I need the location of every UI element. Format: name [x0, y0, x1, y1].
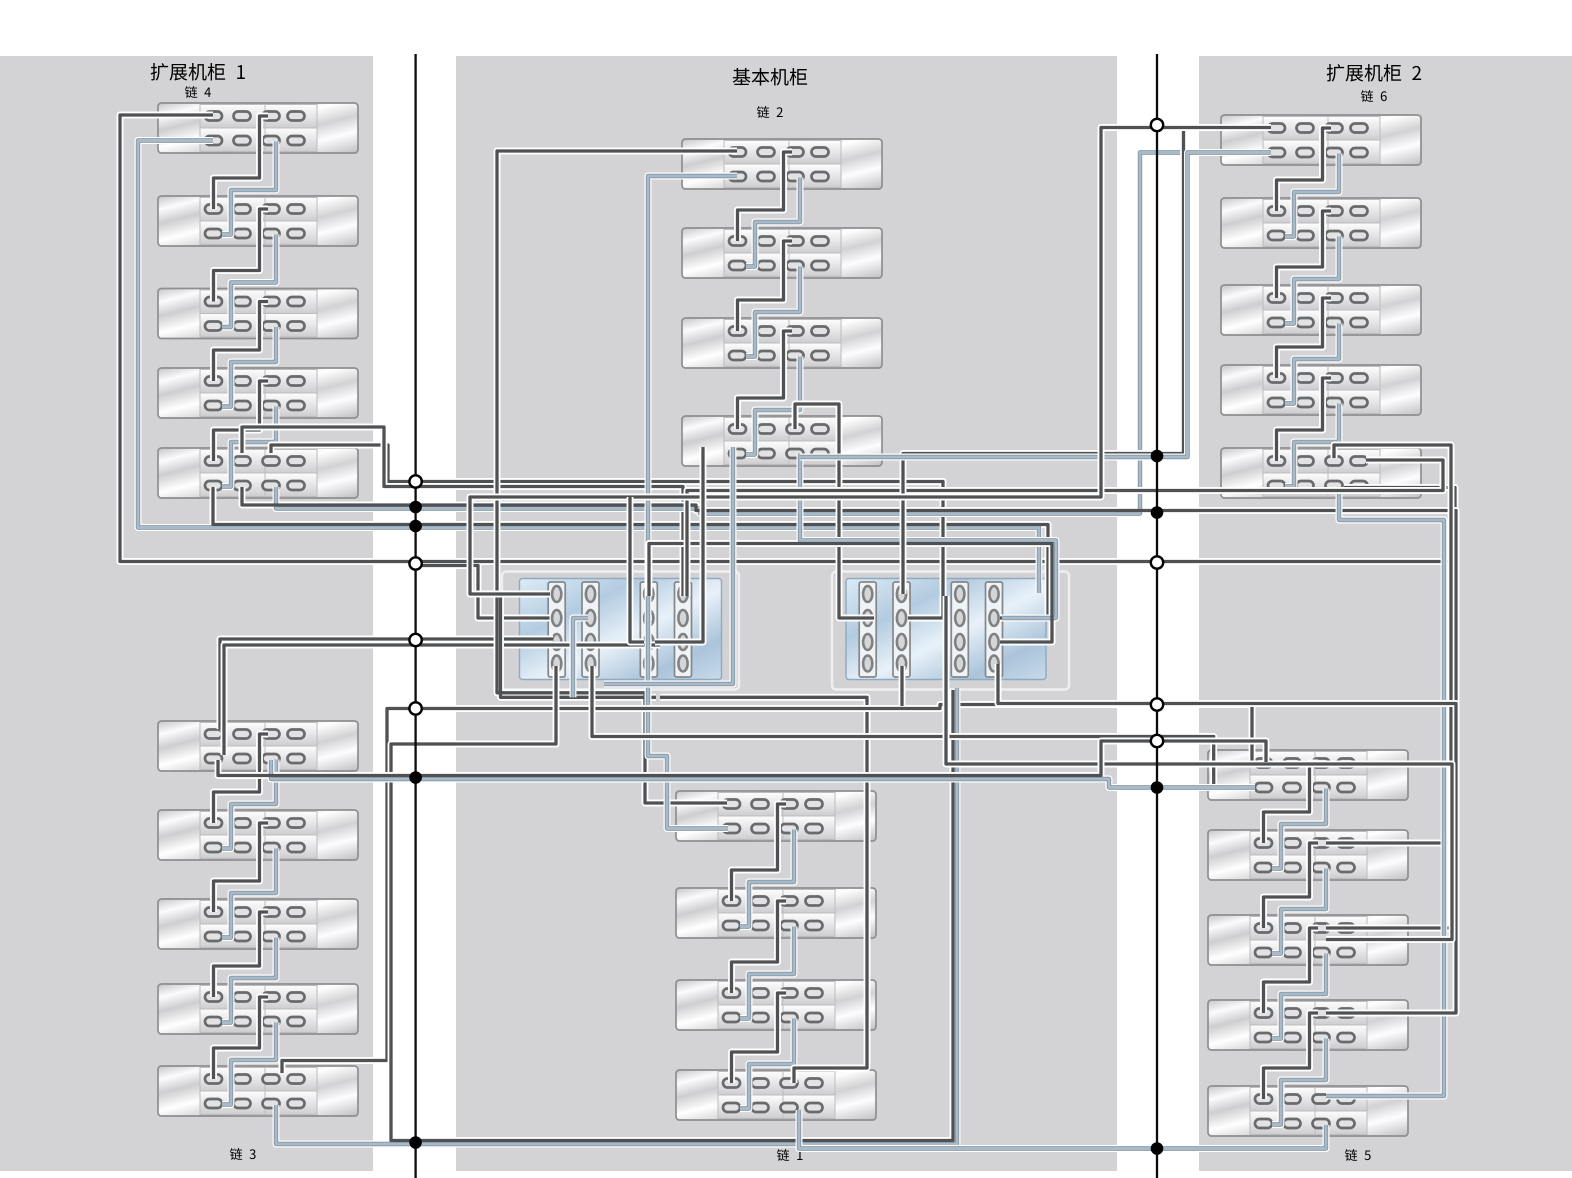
- wire W13 MT1-bot-p1 down to MB1-bot-p1 (blue): [648, 176, 737, 829]
- wire W14b MT4-bot-p3 to U2 slot4 (blue): [800, 454, 1056, 619]
- wire SAS LT2-bot-p3 to LT3-bot-p1 (blue): [222, 235, 276, 328]
- disk shelf MB2 (基本机柜 bottom (链1)): [676, 888, 876, 938]
- wire SAS LB4-top-p3 to LB5-top-p1 (dark): [214, 997, 269, 1079]
- wire W14a MT4-top-p3 down to U2 (dark): [795, 404, 874, 618]
- wire W9 RT5-bot-p3 down to RB5-top-p3 (blue): [1326, 487, 1444, 1096]
- wire W10b to LB1-bot-p1 (dark): [224, 645, 660, 755]
- wire SAS MT2-top-p3 to MT3-top-p1 (dark): [738, 241, 793, 331]
- disk shelf MB4 (基本机柜 bottom (链1)): [676, 1070, 876, 1120]
- wire W25 U1-s2-p2 jog (blue): [573, 618, 588, 697]
- wire W8 RT5-top-p3 down to RB3 (dark): [1326, 445, 1451, 928]
- wire W4 LT5-top-p3 to U2 (dark): [271, 445, 943, 618]
- junction node (left line, y=507): [409, 501, 422, 514]
- wire W28 U1-s4-p1 up to RT5-top-p4 (dark): [687, 460, 1443, 596]
- label 链 3: [230, 1148, 256, 1160]
- controller U1 HBA slot 3: [640, 582, 657, 677]
- disk shelf LB2 (扩展机柜1 bottom (链3)): [158, 810, 358, 860]
- wire SAS LB3-top-p3 to LB4-top-p1 (dark): [214, 912, 269, 997]
- wire SAS LT3-top-p3 to LT4-top-p1 (dark): [214, 302, 269, 382]
- wire W38 trunk down right of U1 to s3-p3 (dark): [655, 447, 703, 642]
- wire SAS MT1-top-p3 to MT2-top-p1 (dark): [738, 152, 793, 241]
- wire W2 LT1-bot-p1 long run to U2 (blue): [138, 141, 1039, 594]
- wire W30 MT4 area to U2 (blue): [800, 153, 1267, 458]
- disk shelf MT3 (基本机柜 top (链2)): [682, 318, 882, 368]
- wire SAS RB2-bot-p3 to RB3-bot-p1 (blue): [1272, 869, 1326, 954]
- disk shelf LB5 (扩展机柜1 bottom (链3)): [158, 1066, 358, 1116]
- junction node (right line, y=456): [1151, 450, 1164, 463]
- wire W24 U1-s3-p1 to U2-s4-p3 (dark): [649, 544, 1052, 643]
- label 链 5: [1345, 1149, 1371, 1161]
- wire SAS LT1-bot-p3 to LT2-bot-p1 (blue): [222, 142, 276, 235]
- crossover node (left line, y=708.5): [409, 702, 421, 714]
- controller U1 HBA slot 1: [548, 582, 565, 677]
- junction node (left line, y=526): [409, 520, 422, 533]
- controller U2 motherboard: [846, 579, 1046, 680]
- wire W29 U2-s2-p1 up-right (dark): [903, 128, 1271, 595]
- rack boundary line left: [414, 54, 416, 1178]
- controller U2 chassis: [832, 572, 1069, 690]
- wire W15 MB4-top-p3 up to U1 bundle (dark): [660, 697, 867, 1083]
- junction node (right line, y=512.5): [1151, 506, 1164, 519]
- disk shelf MB1 (基本机柜 bottom (链1)): [676, 791, 876, 841]
- wire SAS RB1-top-p3 to RB2-top-p1 (dark): [1264, 763, 1319, 843]
- disk shelf RB4 (扩展机柜2 bottom (链5)): [1208, 1000, 1408, 1050]
- wire SAS LB4-bot-p3 to LB5-bot-p1 (blue): [222, 1023, 276, 1105]
- crossover node (left line, y=563.5): [409, 557, 421, 569]
- wire SAS RT4-bot-p3 to RT5-bot-p1 (blue): [1285, 404, 1339, 487]
- wire W7 LT5-bot-p3 to RT1-bot-p1 (blue): [276, 153, 1271, 514]
- wire SAS MT1-bot-p3 to MT2-bot-p1 (blue): [746, 178, 800, 267]
- wire W3 LT5-bot-p1 to U2 slot4 (dark): [213, 487, 1048, 618]
- wire W5 LT5-top-p2 to U1 slot4 (dark): [242, 427, 683, 596]
- controller U1 HBA slot 2: [582, 582, 599, 677]
- wire W18c U2-s2-p4 stub down (dark): [899, 666, 906, 706]
- disk shelf RT5 (扩展机柜2 top (链6)): [1221, 448, 1421, 498]
- wire SAS LT4-bot-p3 to LT5-bot-p1 (blue): [222, 407, 276, 487]
- crossover node (right line, y=704.5): [1151, 698, 1163, 710]
- disk shelf MT2 (基本机柜 top (链2)): [682, 228, 882, 278]
- crossover node (right line, y=562.5): [1151, 556, 1163, 568]
- wire WA LB1-bot trunk to RB1-top-p1 (dark) (core): [218, 741, 1266, 776]
- wire SAS RT2-top-p3 to RT3-top-p1 (dark): [1277, 211, 1332, 298]
- controller U1 chassis: [502, 572, 739, 690]
- controller U1 motherboard: [520, 579, 722, 680]
- wire W26 trunk down to U1-s3-p3 (dark): [630, 497, 644, 642]
- wire B3 RB5-bot-p3 bottom trunk to MB4 (blue): [799, 1110, 1326, 1149]
- wire SAS LB1-bot-p3 to LB2-bot-p1 (blue): [222, 760, 276, 849]
- disk shelf RT1 (扩展机柜2 top (链6)): [1221, 115, 1421, 165]
- disk shelf RT4 (扩展机柜2 top (链6)): [1221, 365, 1421, 415]
- junction node (left line, y=777.5): [409, 771, 422, 784]
- wire W22 U2-s4-p4 to RB4-top-p3 (dark): [998, 664, 1456, 1013]
- label 链 1: [777, 1149, 803, 1161]
- rack panel: 扩展机柜 2: [1199, 56, 1572, 1171]
- wire SAS LT2-top-p3 to LT3-top-p1 (dark): [214, 209, 269, 302]
- wire SAS LB3-bot-p3 to LB4-bot-p1 (blue): [222, 938, 276, 1023]
- wire WB LB1-bot-p3 trunk right (blue): [271, 760, 1255, 788]
- disk shelf MT1 (基本机柜 top (链2)): [682, 139, 882, 189]
- wire SAS LB1-top-p3 to LB2-top-p1 (dark): [214, 734, 269, 823]
- label 链 6: [1361, 90, 1387, 102]
- rack panel: 扩展机柜 1: [0, 56, 373, 1171]
- disk shelf MB3 (基本机柜 bottom (链1)): [676, 980, 876, 1030]
- controller U1 HBA slot 4: [675, 582, 692, 677]
- disk shelf LT1 (扩展机柜1 top (链4)): [158, 103, 358, 153]
- disk shelf LB3 (扩展机柜1 bottom (链3)): [158, 899, 358, 949]
- wire SAS LT3-bot-p3 to LT4-bot-p1 (blue): [222, 327, 276, 407]
- controller U2 HBA slot 3: [951, 582, 968, 677]
- wire W24 U1-s3-p1 to U2-s4-p3 (dark) (core): [649, 544, 1052, 643]
- disk shelf LB4 (扩展机柜1 bottom (链3)): [158, 984, 358, 1034]
- disk shelf RB5 (扩展机柜2 bottom (链5)): [1208, 1086, 1408, 1136]
- wire W31 RT1-top-p1 long run to U1-s1-p1 (dark): [470, 128, 1271, 595]
- wire SAS RB3-bot-p3 to RB4-bot-p1 (blue): [1272, 954, 1326, 1039]
- controller U2 HBA slot 2: [893, 582, 910, 677]
- title 扩展机柜 1: [151, 63, 245, 81]
- wire SAS RB1-bot-p3 to RB2-bot-p1 (blue): [1272, 789, 1326, 869]
- disk shelf LT5 (扩展机柜1 top (链4)): [158, 448, 358, 498]
- wire W6 LT5-bot-p2 to RB2 (dark): [242, 487, 1456, 843]
- wire SAS RT2-bot-p3 to RT3-bot-p1 (blue): [1285, 237, 1339, 324]
- wire SAS LB2-top-p3 to LB3-top-p1 (dark): [214, 823, 269, 912]
- wire W6 LT5-bot-p2 to RB2 (dark) (core): [242, 487, 1456, 843]
- wire W20 trunk to U1-s1-p2 (dark): [417, 566, 550, 619]
- wire W33 U2-s3 down to RB3-bot-p3 (dark): [946, 596, 1452, 940]
- rack panel: 基本机柜: [456, 56, 1117, 1171]
- wire W19 U1-s1-p4 down to bottom trunk (dark): [391, 666, 953, 1141]
- wire W3 LT5-bot-p1 to U2 slot4 (dark) (core): [213, 487, 1048, 618]
- disk shelf RT3 (扩展机柜2 top (链6)): [1221, 285, 1421, 335]
- wire W10a U1-s1-p3 to LB1-top-p1 (dark): [220, 639, 553, 729]
- wire W23 U1-s1-p1 down (dark): [501, 594, 657, 697]
- wire SAS RB2-top-p3 to RB3-top-p1 (dark): [1264, 843, 1319, 928]
- disk shelf LT4 (扩展机柜1 top (链4)): [158, 368, 358, 418]
- wire SAS LT4-top-p3 to LT5-top-p1 (dark): [214, 381, 269, 461]
- wire W18a RB1 area long run to LB5-top-p3 (dark): [282, 705, 1252, 1074]
- junction node (left line, y=1142.5): [409, 1136, 422, 1149]
- crossover node (left line, y=640): [409, 634, 421, 646]
- rack boundary line right: [1156, 54, 1158, 1178]
- wire SAS MT2-bot-p3 to MT3-bot-p1 (blue): [746, 267, 800, 357]
- wire SAS RB3-top-p3 to RB4-top-p1 (dark): [1264, 928, 1319, 1013]
- wire W1 LT1-top-p1 long run to RT5 (dark): [120, 115, 1455, 562]
- junction node (right line, y=1148.5): [1151, 1142, 1164, 1155]
- wire SAS LB2-bot-p3 to LB3-bot-p1 (blue): [222, 849, 276, 938]
- title 扩展机柜 2: [1327, 64, 1421, 82]
- wire W21 U1-s2-p4 to RB1-bot-p1 (dark): [592, 666, 1248, 788]
- label 链 2: [757, 106, 783, 118]
- wire W1 LT1-top-p1 long run to RT5 (dark) (core): [120, 115, 1455, 562]
- disk shelf LT3 (扩展机柜1 top (链4)): [158, 289, 358, 339]
- wire WA LB1-bot trunk to RB1-top-p1 (dark): [218, 741, 1266, 776]
- wire SAS MB1-bot-p3 to MB2-bot-p1 (blue): [740, 830, 794, 927]
- wire W12 MT1-top-p1 down to MB1-top-p1 (dark) (core): [497, 151, 737, 803]
- disk shelf RB1 (扩展机柜2 bottom (链5)): [1208, 750, 1408, 800]
- disk shelf RB2 (扩展机柜2 bottom (链5)): [1208, 830, 1408, 880]
- wire SAS MB1-top-p3 to MB2-top-p1 (dark): [732, 804, 787, 901]
- wire W19 U1-s1-p4 down to bottom trunk (dark) (core): [391, 666, 953, 1141]
- wire W18b LB5-bot-p3 bottom trunk to U2 (blue): [276, 688, 957, 1144]
- disk shelf MT4 (基本机柜 top (链2)): [682, 416, 882, 466]
- crossover node (right line, y=125): [1151, 119, 1163, 131]
- wire SAS LT1-top-p3 to LT2-top-p1 (dark): [214, 116, 269, 209]
- wire SAS MB3-top-p3 to MB4-top-p1 (dark): [732, 993, 787, 1083]
- wire SAS RT3-bot-p3 to RT4-bot-p1 (blue): [1285, 324, 1339, 404]
- wire SAS MB2-top-p3 to MB3-top-p1 (dark): [732, 901, 787, 993]
- controller U2 HBA slot 4: [986, 582, 1003, 677]
- disk shelf LB1 (扩展机柜1 bottom (链3)): [158, 721, 358, 771]
- crossover node (right line, y=741): [1151, 735, 1163, 747]
- label 链 4: [185, 86, 211, 98]
- title 基本机柜: [733, 68, 807, 85]
- wire SAS MB2-bot-p3 to MB3-bot-p1 (blue): [740, 927, 794, 1019]
- disk shelf LT2 (扩展机柜1 top (链4)): [158, 196, 358, 246]
- wire SAS RT3-top-p3 to RT4-top-p1 (dark): [1277, 298, 1332, 378]
- wire SAS RT4-top-p3 to RT5-top-p1 (dark): [1277, 378, 1332, 461]
- disk shelf RB3 (扩展机柜2 bottom (链5)): [1208, 915, 1408, 965]
- wire SAS RB4-top-p3 to RB5-top-p1 (dark): [1264, 1013, 1319, 1099]
- wire SAS MT3-bot-p3 to MT4-bot-p1 (blue): [746, 357, 800, 455]
- controller U2 HBA slot 1: [859, 582, 876, 677]
- wire W39 trunk down right of U1 (blue): [604, 447, 733, 684]
- wire SAS MB3-bot-p3 to MB4-bot-p1 (blue): [740, 1019, 794, 1109]
- wire SAS RT1-bot-p3 to RT2-bot-p1 (blue): [1285, 154, 1339, 237]
- junction node (right line, y=787.5): [1151, 781, 1164, 794]
- wire SAS MT3-top-p3 to MT4-top-p1 (dark): [738, 331, 793, 429]
- disk shelf RT2 (扩展机柜2 top (链6)): [1221, 198, 1421, 248]
- wire SAS RT1-top-p3 to RT2-top-p1 (dark): [1277, 128, 1332, 211]
- crossover node (left line, y=481.5): [409, 475, 421, 487]
- wire W12 MT1-top-p1 down to MB1-top-p1 (dark): [497, 151, 737, 803]
- wire SAS RB4-bot-p3 to RB5-bot-p1 (blue): [1272, 1039, 1326, 1125]
